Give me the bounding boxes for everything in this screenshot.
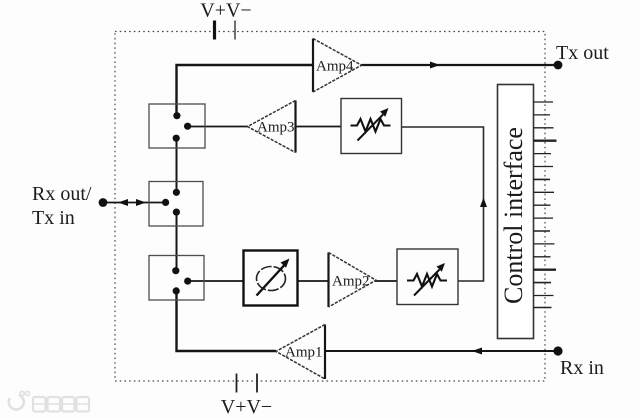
op-amp Amp3 (points left) bbox=[248, 101, 296, 153]
V+ supply tick top (thick) bbox=[213, 21, 216, 40]
svg-text:Tx out: Tx out bbox=[556, 42, 609, 64]
node Tx out terminal bbox=[554, 61, 563, 70]
op-amp Amp2 bbox=[329, 253, 377, 308]
wire: Amp2 to attenuator A2 bbox=[375, 280, 397, 282]
svg-text:Amp2: Amp2 bbox=[332, 274, 370, 290]
wire: phase shifter to Amp2 bbox=[298, 280, 329, 282]
node Rx out / Tx in terminal bbox=[99, 198, 108, 207]
V- supply tick bottom bbox=[256, 374, 258, 393]
wire: Amp3 to attenuator A1 bbox=[296, 126, 342, 128]
svg-text:Control interface: Control interface bbox=[499, 127, 528, 304]
variable attenuator A2 bbox=[397, 249, 458, 305]
control bus ticks bbox=[534, 102, 557, 308]
svg-text:Amp3: Amp3 bbox=[257, 120, 295, 136]
switch S1 (top SPDT) bbox=[149, 104, 205, 148]
svg-text:Amp4: Amp4 bbox=[316, 59, 354, 75]
wire: Amp4 output to Tx out bbox=[361, 64, 558, 66]
op-amp Amp1 (points left) bbox=[276, 325, 325, 380]
V+ supply tick bottom bbox=[236, 374, 238, 393]
switch S2 (middle SPDT) bbox=[149, 182, 203, 227]
wire: Amp1 input from Rx in bbox=[325, 350, 558, 352]
svg-text:V+V−: V+V− bbox=[200, 0, 251, 22]
watermark logo bottom-left bbox=[9, 391, 89, 411]
svg-text:Rx in: Rx in bbox=[560, 357, 604, 379]
svg-text:Tx in: Tx in bbox=[32, 207, 75, 229]
dashed module border bbox=[115, 32, 545, 382]
wire: attenuator A1 to right riser bbox=[402, 127, 484, 281]
control interface U1 bbox=[498, 85, 534, 339]
switch S3 (bottom SPDT) bbox=[149, 256, 204, 301]
wire: vertical between switch S2 and S3 bbox=[176, 212, 178, 271]
V- supply tick top (thin) bbox=[234, 21, 236, 40]
wire: port to middle switch bbox=[103, 202, 166, 204]
arrow on Tx out wire bbox=[430, 62, 440, 69]
variable attenuator A1 bbox=[341, 99, 402, 154]
svg-text:Amp1: Amp1 bbox=[285, 345, 323, 361]
wire: top switch to Amp3 bbox=[188, 126, 249, 128]
arrow left on Rx in wire bbox=[472, 348, 482, 355]
arrow up on riser bbox=[480, 198, 487, 208]
wire: switch S3 to phase shifter bbox=[188, 280, 244, 282]
arrow left on port wire bbox=[118, 199, 128, 206]
arrow right on port wire bbox=[136, 199, 146, 206]
op-amp Amp4 bbox=[313, 39, 362, 93]
phase shifter PS1 bbox=[244, 251, 298, 306]
svg-text:V+V−: V+V− bbox=[221, 396, 272, 418]
wire: top switch up to Amp4 row bbox=[177, 65, 314, 116]
wire: switch S3 down and right to Amp1 bbox=[177, 291, 277, 351]
wire: vertical between switch S1 and S2 bbox=[176, 138, 178, 193]
svg-text:Rx out/: Rx out/ bbox=[32, 183, 92, 205]
node Rx in terminal bbox=[553, 346, 562, 355]
